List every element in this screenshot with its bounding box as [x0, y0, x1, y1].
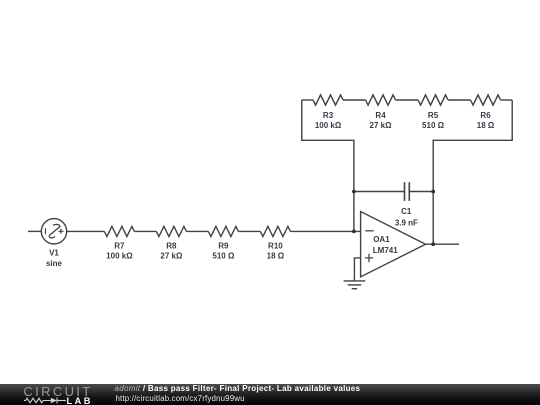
svg-text:27 kΩ: 27 kΩ — [370, 121, 393, 130]
svg-text:sine: sine — [46, 259, 63, 268]
svg-text:R7: R7 — [114, 242, 125, 251]
svg-text:18 Ω: 18 Ω — [267, 252, 285, 261]
svg-text:R6: R6 — [480, 111, 491, 120]
svg-text:R8: R8 — [166, 242, 177, 251]
svg-text:100 kΩ: 100 kΩ — [315, 121, 342, 130]
svg-text:3.9 nF: 3.9 nF — [395, 219, 418, 228]
svg-text:R10: R10 — [268, 242, 283, 251]
svg-text:C1: C1 — [401, 207, 412, 216]
svg-text:R5: R5 — [428, 111, 439, 120]
svg-text:R4: R4 — [375, 111, 386, 120]
svg-text:V1: V1 — [49, 248, 59, 257]
svg-text:R9: R9 — [218, 242, 229, 251]
svg-text:100 kΩ: 100 kΩ — [106, 252, 133, 261]
svg-text:LM741: LM741 — [373, 246, 398, 255]
svg-text:510 Ω: 510 Ω — [422, 121, 445, 130]
svg-text:OA1: OA1 — [373, 235, 390, 244]
svg-text:510 Ω: 510 Ω — [212, 252, 235, 261]
svg-text:27 kΩ: 27 kΩ — [160, 252, 183, 261]
svg-text:18 Ω: 18 Ω — [477, 121, 495, 130]
svg-text:R3: R3 — [323, 111, 334, 120]
